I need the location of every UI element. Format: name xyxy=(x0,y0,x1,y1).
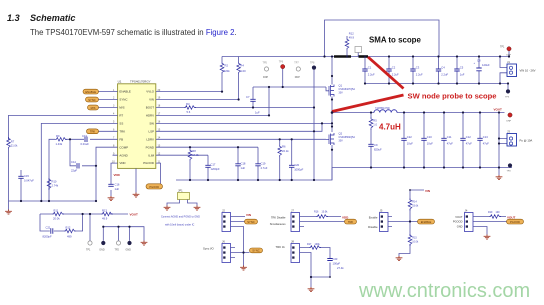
svg-text:1.00: 1.00 xyxy=(240,69,246,73)
svg-text:TRK 3x: TRK 3x xyxy=(276,245,286,249)
svg-text:SS: SS xyxy=(119,122,123,126)
label Sync IO xyxy=(203,247,215,251)
transistor Q1 xyxy=(329,57,355,133)
capacitor C7 xyxy=(246,87,260,115)
wire output gnd rail xyxy=(332,167,512,169)
svg-text:C22: C22 xyxy=(407,135,412,139)
capacitor C3 input xyxy=(410,57,423,84)
svg-text:2.74k: 2.74k xyxy=(52,184,59,188)
svg-text:2.2uF: 2.2uF xyxy=(441,73,448,77)
svg-text:TP5: TP5 xyxy=(263,62,268,65)
svg-text:2.2uF: 2.2uF xyxy=(368,73,375,77)
svg-text:J2: J2 xyxy=(222,209,225,213)
svg-text:J3: J3 xyxy=(507,130,510,134)
U1 pin numbers xyxy=(112,89,161,164)
svg-text:VIN 10 - 26V: VIN 10 - 26V xyxy=(520,69,536,73)
testpoint TP8b black top xyxy=(310,62,316,181)
svg-text:820uF: 820uF xyxy=(374,148,382,152)
wire LDRV pin14 xyxy=(156,138,326,140)
svg-text:220k: 220k xyxy=(224,69,230,73)
svg-text:TP7: TP7 xyxy=(294,62,299,65)
net flag PGOOD oval J4 xyxy=(507,219,524,224)
resistor R3 xyxy=(184,102,196,114)
inductor L1 xyxy=(374,107,397,113)
svg-text:14.3k: 14.3k xyxy=(192,153,199,157)
capacitor C12 output xyxy=(460,113,472,168)
svg-text:20.0k: 20.0k xyxy=(53,217,60,221)
net label VIN J2 xyxy=(246,213,251,217)
wire output rail SW to L1 xyxy=(333,112,375,114)
header J2 sync select xyxy=(222,209,245,253)
svg-text:SMA to scope: SMA to scope xyxy=(369,36,421,45)
wire VIN top rail xyxy=(222,56,509,58)
svg-text:VOUT: VOUT xyxy=(130,212,139,216)
wire R2 R4 top feed xyxy=(222,57,239,63)
net label VOUT bottom left xyxy=(130,212,139,216)
svg-text:C3: C3 xyxy=(416,66,420,70)
svg-text:47uF: 47uF xyxy=(447,142,453,146)
jumper JP1 xyxy=(167,189,197,206)
wire C21 R12 row xyxy=(40,214,83,231)
svg-text:C4: C4 xyxy=(441,66,445,70)
label TRK Disable xyxy=(270,215,286,226)
svg-text:COMP: COMP xyxy=(119,145,128,149)
ground AGND pad xyxy=(133,193,140,198)
svg-text:SYNC: SYNC xyxy=(252,249,260,253)
svg-text:C16: C16 xyxy=(115,183,120,187)
resistor R8 column xyxy=(188,147,199,180)
net flag TRK oval pin6 xyxy=(87,129,99,134)
net label VOUT rail xyxy=(494,108,503,112)
svg-text:C11: C11 xyxy=(447,135,452,139)
svg-text:120uF: 120uF xyxy=(482,63,490,67)
testpoint TP5 xyxy=(86,241,92,252)
svg-text:C17: C17 xyxy=(211,163,216,167)
svg-text:ENABLE: ENABLE xyxy=(421,220,432,224)
svg-text:VDD: VDD xyxy=(114,173,121,177)
svg-text:SW node probe to scope: SW node probe to scope xyxy=(408,91,497,100)
svg-text:R12: R12 xyxy=(66,226,71,230)
capacitor C16 xyxy=(108,183,120,192)
resistor R16 xyxy=(314,211,328,219)
net flag TRK oval J7 xyxy=(345,219,357,224)
svg-text:8200pF: 8200pF xyxy=(43,235,52,239)
svg-text:30V: 30V xyxy=(339,140,344,143)
svg-text:M/S: M/S xyxy=(119,106,124,110)
wire VDD pin10 xyxy=(111,163,118,184)
svg-text:C19: C19 xyxy=(261,162,266,166)
wire PGND pin13 xyxy=(156,146,258,148)
svg-text:4.7uF: 4.7uF xyxy=(261,166,268,170)
svg-text:C13: C13 xyxy=(82,134,87,138)
wire VIN pin19 xyxy=(156,74,239,100)
svg-text:Q1: Q1 xyxy=(339,84,343,88)
svg-text:with 10mil (trace) under IC: with 10mil (trace) under IC xyxy=(165,224,195,227)
svg-text:GND: GND xyxy=(126,249,132,252)
svg-text:2.2uF: 2.2uF xyxy=(392,73,399,77)
svg-text:10uF: 10uF xyxy=(407,142,413,146)
capacitor C20 column xyxy=(289,139,304,180)
svg-text:22.1k: 22.1k xyxy=(282,149,289,153)
svg-text:TP2: TP2 xyxy=(115,249,120,252)
svg-text:10.0k: 10.0k xyxy=(322,211,329,214)
capacitor C11 output xyxy=(441,113,453,168)
svg-text:LDRV: LDRV xyxy=(146,137,154,141)
net label VDD J7 xyxy=(342,215,349,219)
svg-text:C2: C2 xyxy=(392,66,396,70)
svg-text:J7: J7 xyxy=(291,209,294,213)
net label VDD xyxy=(114,173,121,177)
svg-text:GND: GND xyxy=(99,249,105,252)
IC U1 TPS40170RGY body xyxy=(118,79,156,168)
svg-text:R16: R16 xyxy=(314,211,319,214)
connector J3 output xyxy=(499,113,532,176)
svg-text:VDD: VDD xyxy=(119,161,125,165)
ground J6 xyxy=(240,266,247,271)
testpoint GND6 xyxy=(126,241,132,252)
wire FB pin7 xyxy=(49,139,118,201)
testpoint TP1 red top right xyxy=(500,46,512,57)
testpoint TP3 black mid right xyxy=(505,84,510,99)
svg-text:Sync I/O: Sync I/O xyxy=(203,247,215,251)
svg-text:R7: R7 xyxy=(11,140,15,144)
svg-text:C23: C23 xyxy=(333,257,338,261)
svg-text:Enable: Enable xyxy=(369,215,378,219)
svg-text:U1: U1 xyxy=(118,79,122,83)
svg-text:0.047uF: 0.047uF xyxy=(24,179,34,183)
svg-text:1uF: 1uF xyxy=(460,73,465,77)
wire COMP pin8 xyxy=(96,147,118,201)
svg-text:SYNC: SYNC xyxy=(88,98,96,102)
svg-text:1000pF: 1000pF xyxy=(294,168,303,172)
resistor R4 xyxy=(237,62,246,74)
svg-text:VIN: VIN xyxy=(425,189,430,193)
svg-text:TP1: TP1 xyxy=(86,249,91,252)
ground J4 xyxy=(484,235,491,240)
svg-text:0.01uF: 0.01uF xyxy=(81,142,90,146)
svg-text:C1: C1 xyxy=(368,66,372,70)
svg-text:LSP: LSP xyxy=(149,129,155,133)
svg-text:VIN: VIN xyxy=(149,98,154,102)
header J8 trk 3x xyxy=(291,240,330,288)
capacitor C5 input xyxy=(454,57,464,84)
svg-text:R9: R9 xyxy=(56,134,60,138)
wire M/S pin3 xyxy=(99,107,118,109)
svg-text:GND: GND xyxy=(457,224,463,228)
svg-text:TP8: TP8 xyxy=(310,62,315,65)
capacitor C21 xyxy=(43,226,53,239)
resistor R10 xyxy=(47,178,59,190)
svg-text:C7: C7 xyxy=(246,95,250,99)
wire enable divider xyxy=(399,190,424,256)
svg-text:C10: C10 xyxy=(427,135,432,139)
resistor R12b xyxy=(64,226,76,239)
annotation SMA to scope xyxy=(369,36,421,45)
svg-text:R15: R15 xyxy=(412,237,417,240)
wire HDRV pin17 xyxy=(156,87,326,115)
testpoint TP6 xyxy=(115,241,121,252)
svg-text:HDRV: HDRV xyxy=(146,114,154,118)
svg-text:C9: C9 xyxy=(374,143,378,147)
annotation SW node probe to scope xyxy=(408,91,497,100)
svg-text:TP4: TP4 xyxy=(507,171,512,173)
header J6 sync io xyxy=(222,240,250,266)
svg-text:10uF: 10uF xyxy=(427,142,433,146)
svg-text:PGOOD: PGOOD xyxy=(143,161,154,165)
svg-text:+: + xyxy=(474,62,476,65)
svg-text:ENABLE: ENABLE xyxy=(85,90,96,94)
svg-text:21.0k: 21.0k xyxy=(11,144,18,148)
svg-text:R19: R19 xyxy=(488,211,493,214)
ground enable xyxy=(396,256,403,261)
net flag PGOOD oval xyxy=(146,184,163,189)
svg-text:27.4k: 27.4k xyxy=(337,266,344,270)
svg-text:R6: R6 xyxy=(282,145,286,149)
net label VOUT J4 xyxy=(507,215,516,219)
svg-text:J4: J4 xyxy=(465,209,468,213)
capacitor C13 xyxy=(81,134,90,146)
svg-text:Po @ 10A: Po @ 10A xyxy=(520,139,533,143)
svg-text:74435514700: 74435514700 xyxy=(375,107,390,110)
svg-text:100: 100 xyxy=(496,211,501,214)
svg-text:2.2uF: 2.2uF xyxy=(416,73,423,77)
svg-text:DNP: DNP xyxy=(295,76,300,79)
net flag SYNC oval J6 xyxy=(250,248,263,253)
svg-text:VOUT: VOUT xyxy=(494,108,503,112)
resistor R9 xyxy=(55,134,67,146)
svg-text:TRK: TRK xyxy=(348,220,354,224)
wire SMA loop top xyxy=(325,20,440,57)
wire ILIM pin12 xyxy=(156,154,208,156)
wire VIN thick segment A xyxy=(334,55,351,58)
svg-text:1.0: 1.0 xyxy=(373,123,377,127)
ground J8 xyxy=(308,287,315,292)
wire input cap bottom rail xyxy=(365,83,508,85)
svg-text:VDD: VDD xyxy=(342,215,349,219)
svg-text:C15: C15 xyxy=(24,174,29,178)
resistor R14 xyxy=(408,199,419,211)
capacitor C1 input xyxy=(362,57,375,84)
svg-text:RT: RT xyxy=(119,114,123,118)
svg-text:ILIM: ILIM xyxy=(148,153,154,157)
svg-text:VOUT: VOUT xyxy=(455,215,463,219)
svg-text:SYNC: SYNC xyxy=(119,98,127,102)
svg-text:R11: R11 xyxy=(54,209,59,213)
testpoint TP2 black vout xyxy=(507,113,513,123)
wire PGOOD pin11 xyxy=(156,163,161,184)
capacitor C19 column xyxy=(255,147,267,180)
svg-text:R8: R8 xyxy=(192,149,196,153)
svg-text:C5: C5 xyxy=(460,66,464,70)
svg-text:C13: C13 xyxy=(483,135,488,139)
svg-text:1uF: 1uF xyxy=(241,166,246,170)
svg-text:J8: J8 xyxy=(291,240,294,244)
svg-text:5.6: 5.6 xyxy=(187,110,191,114)
wire TRK pin6 xyxy=(99,130,118,132)
svg-text:C12: C12 xyxy=(466,135,471,139)
svg-text:R12: R12 xyxy=(349,32,354,36)
capacitor C23 xyxy=(327,257,344,270)
svg-text:100k: 100k xyxy=(315,243,321,246)
U1 right pin names xyxy=(143,90,155,166)
wire gnd left lower rail xyxy=(9,201,97,210)
resistor R12 SMA tap xyxy=(345,32,354,57)
capacitor C23o output xyxy=(477,113,489,168)
resistor R11 xyxy=(52,209,64,221)
svg-text:R13: R13 xyxy=(102,209,107,213)
resistor R7 xyxy=(7,137,18,149)
ground output rail right xyxy=(496,175,503,180)
capacitor C22 output xyxy=(401,113,413,168)
wire ENABLE pin1 xyxy=(99,91,118,93)
wire BOOT pin18 xyxy=(156,107,314,109)
svg-text:BOOT: BOOT xyxy=(146,106,154,110)
resistor R2 xyxy=(220,62,230,74)
wire RT lower to gnd rail xyxy=(8,149,10,201)
note text AGND PGND xyxy=(161,216,200,227)
label TRK 3x xyxy=(276,245,286,249)
transistor Q2 xyxy=(326,132,355,181)
svg-text:C14: C14 xyxy=(71,160,76,164)
svg-text:R2: R2 xyxy=(225,64,229,68)
svg-text:R14: R14 xyxy=(412,201,417,204)
capacitor C17 column xyxy=(205,155,220,180)
svg-text:TRK: TRK xyxy=(90,130,96,134)
resistor R19 xyxy=(488,211,501,218)
net flag ENABLE oval xyxy=(418,219,435,224)
svg-text:DNP: DNP xyxy=(507,121,512,123)
wire AGND pin9 xyxy=(113,155,137,192)
svg-text:VOUT: VOUT xyxy=(507,215,516,219)
testpoint TP7h hollow top xyxy=(294,62,300,79)
ground JP1 left xyxy=(164,206,171,211)
capacitor C2 input xyxy=(386,57,399,84)
svg-text:C21: C21 xyxy=(46,226,51,230)
testpoint TP6r red top xyxy=(279,61,285,88)
testpoint TP4 black gnd rail xyxy=(507,163,513,172)
wire analog gnd rail xyxy=(176,168,332,181)
capacitor C8 electrolytic xyxy=(474,57,490,84)
svg-text:10.0k: 10.0k xyxy=(412,241,419,244)
svg-text:M/S: M/S xyxy=(91,106,96,110)
svg-text:SYNC: SYNC xyxy=(247,220,255,224)
capacitor C18 column xyxy=(235,147,246,180)
capacitor C10 output xyxy=(421,113,433,168)
label Enable Disable xyxy=(368,215,378,229)
svg-text:Simultaneous: Simultaneous xyxy=(270,222,286,226)
svg-text:VIN: VIN xyxy=(246,213,251,217)
svg-text:100pF: 100pF xyxy=(333,262,341,266)
wire HDRV C7 link xyxy=(253,87,329,91)
svg-text:PGOOD: PGOOD xyxy=(149,185,159,189)
wire C14 loop xyxy=(70,139,96,166)
svg-text:47uF: 47uF xyxy=(483,142,489,146)
svg-text:JP1: JP1 xyxy=(178,189,183,193)
net flag SYNC oval pin2 xyxy=(86,97,99,102)
resistor R5 capacitor C9 snubber column xyxy=(368,113,382,168)
capacitor C4 input xyxy=(436,57,449,84)
SMA connector P1 xyxy=(355,47,362,57)
svg-text:R4: R4 xyxy=(240,64,244,68)
svg-text:TP1: TP1 xyxy=(500,46,505,49)
capacitor C15 xyxy=(18,170,34,201)
svg-text:TPS40170RGY: TPS40170RGY xyxy=(130,79,151,83)
svg-text:TP3: TP3 xyxy=(505,97,510,99)
svg-text:4.7uH: 4.7uH xyxy=(379,123,401,132)
svg-text:Disable: Disable xyxy=(368,225,378,229)
svg-text:C8: C8 xyxy=(477,59,481,63)
resistor R6 column xyxy=(278,139,289,180)
svg-text:R3: R3 xyxy=(186,102,190,106)
svg-text:R17: R17 xyxy=(307,243,312,246)
annotation red probe line lower xyxy=(332,95,404,112)
ground left rail xyxy=(5,210,12,215)
svg-text:AGND: AGND xyxy=(119,153,127,157)
header J7 trk select xyxy=(291,209,345,232)
svg-text:Q2: Q2 xyxy=(339,132,343,136)
svg-text:Connect AGND and PGND to GND: Connect AGND and PGND to GND xyxy=(161,216,200,219)
U1 left pin names xyxy=(119,90,130,166)
svg-text:30V: 30V xyxy=(339,92,344,95)
svg-text:1200pF: 1200pF xyxy=(211,167,220,171)
svg-text:TRK: TRK xyxy=(119,129,125,133)
svg-text:1uF: 1uF xyxy=(255,111,260,115)
svg-text:ENABLE: ENABLE xyxy=(119,90,130,94)
header J4 vout sense xyxy=(465,209,507,235)
wire SW pin16 xyxy=(156,122,333,124)
wire RT pin4 xyxy=(9,115,118,140)
net flag M/S oval pin3 xyxy=(88,105,99,110)
svg-text:49.9: 49.9 xyxy=(349,36,355,40)
capacitor C14 xyxy=(71,160,79,173)
svg-text:PGOOD: PGOOD xyxy=(510,220,520,224)
svg-text:R10: R10 xyxy=(52,180,57,184)
svg-text:49.9: 49.9 xyxy=(102,217,108,221)
svg-text:J5: J5 xyxy=(380,209,383,213)
ground C16 xyxy=(108,196,115,201)
wire VIN thick segment B xyxy=(359,55,369,58)
header J5 enable xyxy=(380,209,418,232)
testpoint TP5h hollow top xyxy=(263,62,269,79)
testpoint GND5 xyxy=(99,241,105,252)
svg-text:FB: FB xyxy=(119,137,123,141)
resistor R13 xyxy=(101,209,113,221)
svg-text:VVLO: VVLO xyxy=(146,90,154,94)
svg-text:1uF: 1uF xyxy=(115,187,120,191)
wire testpoint stubs bottom left xyxy=(90,214,144,241)
svg-text:J1: J1 xyxy=(507,60,510,64)
svg-text:PGND: PGND xyxy=(146,145,154,149)
resistor R15 xyxy=(408,234,419,246)
svg-text:53.6k: 53.6k xyxy=(412,205,419,208)
svg-text:1.43k: 1.43k xyxy=(56,142,63,146)
svg-text:C20: C20 xyxy=(294,163,299,167)
svg-text:TP6: TP6 xyxy=(279,61,284,64)
svg-text:DNP: DNP xyxy=(263,76,268,79)
value label 4.7uH xyxy=(379,123,401,132)
svg-text:499: 499 xyxy=(67,235,72,239)
wire SYNC pin2 xyxy=(99,99,118,101)
wire output rail VOUT xyxy=(397,112,505,114)
svg-text:47uF: 47uF xyxy=(466,142,472,146)
ground JP1 right xyxy=(194,206,201,211)
wire VOUT divider row xyxy=(40,213,128,215)
wire LSP pin15 xyxy=(156,123,322,131)
svg-text:SW: SW xyxy=(149,122,154,126)
label VOUT PGOOD GND xyxy=(453,215,463,228)
net flag ENABLE oval pin1 xyxy=(83,89,99,94)
ground scope TP right xyxy=(141,241,148,246)
